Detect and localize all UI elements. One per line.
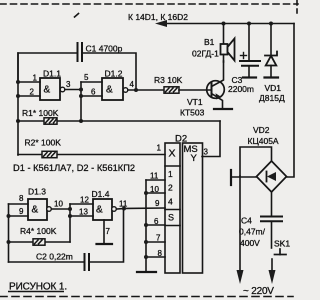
wire D2 pin 3 output [202,121,220,157]
wire D2 pin 7 [146,241,165,243]
svg-text:D1.2: D1.2 [105,69,123,79]
svg-text:&: & [44,85,51,96]
svg-text:Y: Y [191,153,198,164]
node bus D1.1 inputs [17,53,19,155]
svg-text:2: 2 [168,183,173,193]
svg-text:R3 10K: R3 10K [154,75,183,85]
gate D1.2 [102,78,123,100]
wire D1.4 output pin 11 [117,208,125,211]
svg-text:&: & [96,205,103,216]
svg-text:C1 4700p: C1 4700p [86,44,123,54]
wire D2 pin 8 [146,256,165,258]
wire pin 9 [9,215,29,217]
wire pin 13 [70,215,93,217]
stray tick mark [75,14,79,18]
ground D2 bus [137,271,156,273]
wire rail to speaker [223,24,225,45]
D2 divider above S [165,209,180,211]
junction dot D1.4 output [122,207,126,211]
wire switch to mains 2 [271,259,273,272]
junction dots D1.4 input bus [68,207,72,218]
svg-text:4: 4 [168,197,173,207]
wire rail to C3 [248,24,250,61]
wire D1.1 output pin 3 [65,89,81,91]
node bus D1.4 inputs [69,204,71,242]
svg-text:1: 1 [168,169,173,179]
svg-text:C4: C4 [241,216,252,226]
junction dots top rail [222,22,274,26]
wire bridge bottom to C4 [271,192,273,216]
wire pin 6 [81,95,102,97]
svg-text:02ГД-1: 02ГД-1 [192,49,219,59]
svg-text:6: 6 [154,217,159,226]
wire C2 right to D1.4 output [90,209,124,263]
svg-text:VT1: VT1 [187,97,203,107]
svg-text:D1.1: D1.1 [43,69,61,79]
junction dot D1.2 output [134,88,138,92]
wire pin 5 [81,81,102,83]
capacitor C2 [85,254,90,270]
svg-text:8: 8 [158,249,163,258]
svg-text:R4* 100K: R4* 100K [20,226,57,236]
junction dots left bus [16,80,20,123]
svg-text:5: 5 [84,73,89,82]
wire C2 line left [9,261,85,263]
resistor R4 [33,239,45,245]
zener VD1 cathode bar [265,52,277,56]
svg-text:11: 11 [119,200,128,209]
border right dashed stub [296,0,298,13]
wire pin 12 [70,203,93,205]
zener VD1 triangle [266,56,277,66]
wire C3 to ground [248,66,250,77]
svg-text:8: 8 [19,194,24,203]
resistor R2 [42,151,57,157]
svg-text:1: 1 [33,74,38,83]
svg-text:1: 1 [157,144,162,153]
svg-text:SK1: SK1 [274,239,290,249]
svg-text:Д815Д: Д815Д [259,93,285,103]
VT1 collector [212,61,224,87]
svg-text:7: 7 [156,234,161,243]
wire rail to VD1 [270,24,272,56]
svg-text:0,47m/: 0,47m/ [239,227,266,237]
svg-text:3: 3 [204,148,209,157]
mains arrow 2 [269,270,276,284]
wire D2 pin 9 from D1.4 [124,207,165,210]
junction dots D1.3 input bus [7,214,11,244]
junction dots D2 ground bus [144,191,148,259]
resistor R1 line [18,120,220,122]
gate D1.3 bubble [47,207,52,212]
transistor VT1 [207,81,225,99]
bridge VD2 inner diode [267,172,277,182]
wire D2 pin 6 [146,224,165,226]
wire R3 to VT1 base [179,89,212,91]
wire bridge minus to ground [232,176,257,178]
resistor R4 line [9,241,71,243]
speaker B1 [221,39,235,61]
VT1 emitter [212,94,223,109]
svg-text:VD2: VD2 [253,125,270,135]
svg-text:6: 6 [91,88,96,97]
multiplexer D2 left column [165,143,180,273]
svg-text:В1: В1 [204,37,215,47]
ground bridge (rotated bar) [230,170,232,185]
wire pin 8 [9,203,29,205]
resistor R2 line / wire to D2 pin 1 [18,154,165,156]
ground VT1 emitter [214,108,232,110]
svg-text:R1* 100K: R1* 100K [22,108,59,118]
VT1 emitter arrow [216,93,222,99]
wire pin 1 [18,81,40,83]
caption underline [8,291,64,293]
VT1 base bar [211,83,213,96]
svg-text:12: 12 [80,196,89,205]
wire D2 pin 11 [146,179,165,181]
multiplexer D2 right column [183,143,203,273]
svg-text:VD1: VD1 [265,83,282,93]
capacitor C3 plus [241,53,247,59]
wire C4 to switch [271,221,273,248]
node bus D1.3 inputs [8,204,10,262]
ground D1.4 [97,243,113,245]
svg-text:D1.3: D1.3 [28,187,46,197]
gate D1.1 [40,78,60,100]
top rail arrow [155,20,167,27]
wire D1.3 output pin 10 [52,208,71,210]
svg-text:S: S [168,213,174,223]
wire C1 feedback left [18,53,77,82]
svg-text:9: 9 [19,207,24,216]
wire VD1 to ground [270,66,272,77]
border top dashed [0,3,298,5]
svg-text:~ 220V: ~ 220V [243,286,274,297]
mains arrow 1 [237,270,244,284]
svg-text:10: 10 [54,200,63,209]
svg-text:9: 9 [155,199,160,208]
junction dots D1.2 input bus [79,88,83,124]
svg-text:C2 0,22m: C2 0,22m [36,252,73,262]
ground VD1 [265,76,279,78]
svg-text:7: 7 [106,227,111,236]
resistor R3 [164,87,179,93]
svg-text:&: & [106,85,113,96]
svg-text:КЦ405А: КЦ405А [248,136,279,146]
svg-text:2: 2 [30,88,35,97]
svg-text:4: 4 [130,80,135,89]
svg-text:R2* 100K: R2* 100K [25,138,62,148]
bridge rectifier VD2 diamond [257,161,287,192]
svg-text:X: X [169,148,176,160]
svg-text:400V: 400V [240,238,260,248]
gate D1.4 bubble [112,207,117,212]
D2 divider below S [165,225,180,227]
resistor R1 [44,118,57,124]
wire C1 right to D1.2 output node [83,53,137,90]
gate D1.3 [28,199,47,220]
svg-text:11: 11 [150,172,159,181]
D2 divider under X [165,165,180,167]
svg-text:13: 13 [79,208,88,217]
gate D1.1 bubble [60,87,65,92]
node bus D1.2 inputs [80,82,82,121]
svg-text:2200m: 2200m [228,84,254,94]
capacitor C3 [240,61,260,66]
border bottom dashed [0,296,293,298]
wire right rail [287,24,295,178]
wire bridge top to mains line [240,147,272,176]
svg-text:D1 - К561ЛА7, D2 - К561КП2: D1 - К561ЛА7, D2 - К561КП2 [13,163,135,173]
wire top rail [166,23,294,25]
svg-text:К 14D1, К 16D2: К 14D1, К 16D2 [128,12,188,22]
svg-text:3: 3 [66,80,71,89]
gate D1.2 bubble [123,88,128,93]
wire pin 2 [18,95,40,97]
node D2 ground bus [145,180,147,271]
ground C3 [243,76,256,78]
gate D1.4 [93,199,112,220]
svg-text:D1.4: D1.4 [92,189,110,199]
svg-text:D2: D2 [175,134,187,145]
svg-text:&: & [32,205,39,216]
wire speaker to collector [223,55,225,63]
svg-text:10: 10 [150,185,159,194]
capacitor C4 [261,217,282,222]
svg-text:КТ503: КТ503 [180,108,205,118]
switch SK1 [275,249,287,255]
wire D1.4 pin 7 to ground [103,220,105,243]
wire D2 pin 10 [146,192,165,194]
wire mains line 1 down [239,176,241,272]
wire D1.2 output pin 4 [128,89,164,91]
capacitor C1 [78,43,83,61]
